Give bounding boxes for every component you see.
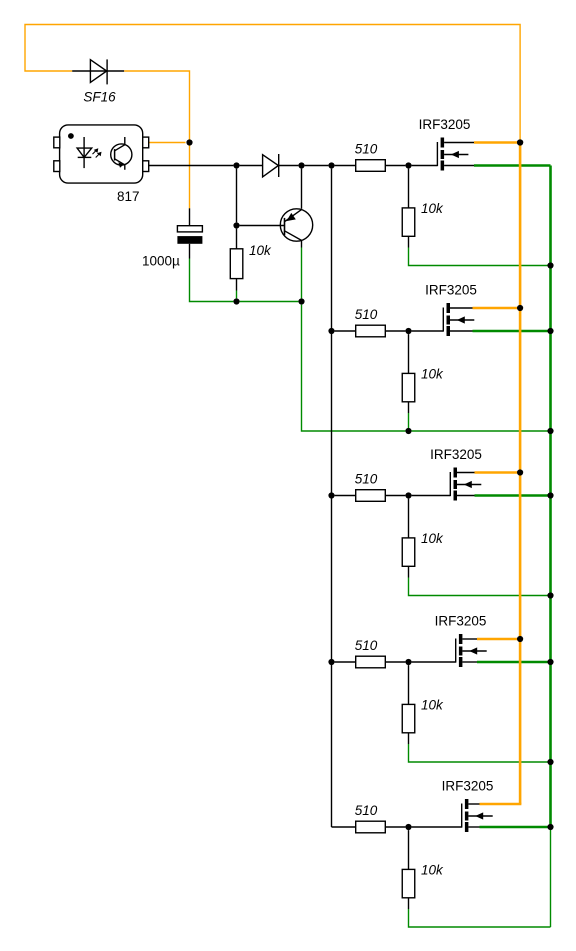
wire black: 510 to gate node (stage2): [385, 330, 405, 332]
wire green: R1 bottom to node D: [236, 291, 238, 299]
wire black: stage2 rail bus to R510: [335, 330, 356, 332]
node C junction: [298, 162, 304, 168]
svg-text:IRF3205: IRF3205: [430, 447, 482, 462]
transistor Q1 (PNP): [280, 209, 312, 248]
wire black: stage1 rail, node C bus to R510: [335, 165, 356, 167]
wire orange: SF16 cathode to node A: [124, 71, 189, 143]
wire green: source to bus (stage3): [475, 494, 551, 497]
capacitor C1 1000µ: [177, 208, 202, 258]
node B junction: [233, 162, 239, 168]
wire green: 10k bottom to bus (stage5): [409, 909, 551, 927]
diode D1 SF16: [72, 59, 124, 84]
wire black: node B down to base node: [236, 169, 238, 223]
resistor 510 (stage1): [356, 160, 386, 172]
svg-text:10k: 10k: [421, 698, 444, 713]
gate node junction (stage5): [405, 824, 411, 830]
wire green: node D to node E: [240, 301, 299, 303]
green bus junction ground (stage2): [547, 428, 553, 434]
svg-text:510: 510: [355, 471, 378, 486]
wire black: stage3 rail bus to R510: [335, 495, 356, 497]
svg-text:10k: 10k: [421, 367, 444, 382]
resistor 10k (stage3): [402, 499, 415, 578]
wire green: capacitor minus down and right to node D: [190, 259, 234, 302]
wire orange: drain to bus (stage3): [475, 471, 521, 474]
svg-text:510: 510: [355, 307, 378, 322]
label 510 (stage2): [355, 307, 378, 322]
wire green: bus tail to stage5 ground rail: [550, 827, 552, 927]
wire black: optocoupler emitter pin to node B: [149, 165, 234, 167]
node A junction: [186, 139, 192, 145]
wire green: Q1 collector to node E: [301, 248, 303, 299]
label 10k (stage5): [421, 863, 444, 878]
gate node junction (stage1): [405, 162, 411, 168]
green bus junction source (stage4): [547, 659, 553, 665]
svg-text:10k: 10k: [421, 201, 444, 216]
wire black: 510 to gate node (stage1): [385, 165, 405, 167]
label IRF3205 (stage3): [430, 447, 482, 462]
label 510 (stage1): [355, 141, 378, 156]
wire green: source bus vertical: [549, 166, 552, 828]
ground rail junction (stage2): [405, 428, 411, 434]
node E junction: [298, 298, 304, 304]
wire green: source to bus (stage2): [473, 330, 551, 333]
svg-text:10k: 10k: [421, 531, 444, 546]
svg-text:IRF3205: IRF3205: [442, 779, 494, 794]
gate node junction (stage4): [405, 659, 411, 665]
svg-text:SF16: SF16: [83, 89, 116, 104]
wire black: stage5 rail corner from bus: [332, 826, 356, 828]
svg-text:510: 510: [355, 141, 378, 156]
label IRF3205 (stage5): [442, 779, 494, 794]
MOSFET Q4 IRF3205 (stage3): [450, 468, 481, 501]
wire black: stage4 rail bus to R510: [335, 661, 356, 663]
resistor 10k (stage1): [402, 169, 415, 248]
MOSFET Q3 IRF3205 (stage2): [443, 303, 474, 336]
resistor 10k (stage4): [402, 665, 415, 744]
diode D2: [263, 154, 299, 177]
label 10k (R1): [249, 243, 272, 258]
orange drain bus junction top: [517, 139, 523, 145]
orange bus junction (stage1): [517, 139, 523, 145]
left bus junction stage3: [328, 492, 334, 498]
resistor 510 (stage4): [356, 656, 386, 668]
resistor 510 (stage5): [356, 821, 386, 833]
svg-text:10k: 10k: [421, 863, 444, 878]
wire black: gate node to MOSFET gate (stage2): [412, 330, 444, 332]
left bus junction stage4: [328, 659, 334, 665]
label 10k (stage3): [421, 531, 444, 546]
wire black: gate node to MOSFET gate (stage3): [412, 495, 451, 497]
base node junction: [233, 222, 239, 228]
optocoupler U1 817: [54, 125, 149, 183]
label IRF3205 (stage4): [435, 614, 487, 629]
wire orange: drain to bus (stage4): [477, 638, 520, 641]
wire green: ground rail to bus (stage2): [412, 430, 551, 432]
svg-text:1000µ: 1000µ: [142, 253, 180, 268]
label IRF3205 (stage1): [419, 117, 471, 132]
orange bus junction (stage2): [517, 305, 523, 311]
resistor 10k (stage5): [402, 830, 415, 909]
label 510 (stage3): [355, 471, 378, 486]
wire green: 10k bottom to bus (stage1): [409, 248, 551, 266]
wire black: 510 to gate node (stage4): [385, 661, 405, 663]
left bus junction stage2: [328, 328, 334, 334]
svg-text:510: 510: [355, 803, 378, 818]
MOSFET Q6 IRF3205 (stage5): [462, 799, 493, 832]
wire green: 10k bottom to bus (stage4): [409, 744, 551, 762]
gate node junction (stage3): [405, 492, 411, 498]
wire black: 510 to gate node (stage3): [385, 495, 405, 497]
wire green: 10k bottom to bus (stage3): [409, 578, 551, 596]
wire black: node C to left bus node: [305, 165, 329, 167]
MOSFET Q5 IRF3205 (stage4): [456, 634, 487, 667]
label 10k (stage1): [421, 201, 444, 216]
green bus junction ground (stage3): [547, 592, 553, 598]
label 10k (stage4): [421, 698, 444, 713]
svg-text:IRF3205: IRF3205: [419, 117, 471, 132]
green bus junction ground (stage4): [547, 759, 553, 765]
wire green: node E down to stage2 ground rail: [302, 305, 406, 431]
wire green: 10k bottom to ground rail (stage2): [408, 413, 410, 428]
wire green: source to bus (stage5): [480, 826, 551, 829]
left bus top junction: [328, 162, 334, 168]
wire orange: drain to bus corner (stage5): [480, 803, 522, 806]
resistor 510 (stage3): [356, 490, 386, 502]
resistor R1 10k (base pulldown): [230, 229, 243, 291]
svg-text:10k: 10k: [249, 243, 272, 258]
label 10k (stage2): [421, 367, 444, 382]
orange bus junction (stage3): [517, 469, 523, 475]
wire green: source to bus (stage4): [477, 661, 551, 664]
wire black: 510 to gate node (stage5): [385, 826, 405, 828]
wire black: gate node to MOSFET gate (stage5): [412, 826, 462, 828]
resistor 510 (stage2): [356, 325, 386, 337]
svg-text:IRF3205: IRF3205: [435, 614, 487, 629]
svg-text:510: 510: [355, 638, 378, 653]
label SF16: [83, 89, 116, 104]
MOSFET Q2 IRF3205 (stage1): [437, 138, 474, 171]
wire black: gate node to MOSFET gate (stage1): [412, 165, 438, 167]
wire orange: drain to bus (stage1): [474, 141, 520, 144]
wire orange: optocoupler collector pin to node A: [149, 142, 186, 144]
green bus junction source (stage2): [547, 328, 553, 334]
wire orange: drain bus vertical: [519, 143, 522, 805]
wire black: node B to diode D2 anode: [240, 165, 263, 167]
wire black: left gate bus down stages: [331, 169, 333, 827]
wire orange: top rail from SF16 anode up-left, across top, down to drain bus: [25, 25, 520, 143]
gate node junction (stage2): [405, 328, 411, 334]
wire black: base node to transistor Q1 base: [240, 225, 285, 227]
orange bus junction (stage4): [517, 636, 523, 642]
resistor 10k (stage2): [402, 334, 415, 413]
wire black: node C down to transistor Q1 emitter: [301, 169, 303, 209]
green bus junction source (stage5): [547, 824, 553, 830]
label IRF3205 (stage2): [425, 283, 477, 298]
green bus junction ground (stage1): [547, 262, 553, 268]
label 510 (stage4): [355, 638, 378, 653]
node D junction: [233, 298, 239, 304]
green bus junction source (stage3): [547, 492, 553, 498]
svg-text:IRF3205: IRF3205: [425, 283, 477, 298]
svg-text:817: 817: [117, 189, 140, 204]
label 510 (stage5): [355, 803, 378, 818]
label 1000µ: [142, 253, 180, 268]
wire black: gate node to MOSFET gate (stage4): [412, 661, 456, 663]
wire orange: drain to bus (stage2): [473, 307, 521, 310]
label 817: [117, 189, 140, 204]
wire green: source to bus (stage1): [474, 164, 551, 167]
wire orange: node A down to capacitor C1 plus: [189, 143, 191, 209]
